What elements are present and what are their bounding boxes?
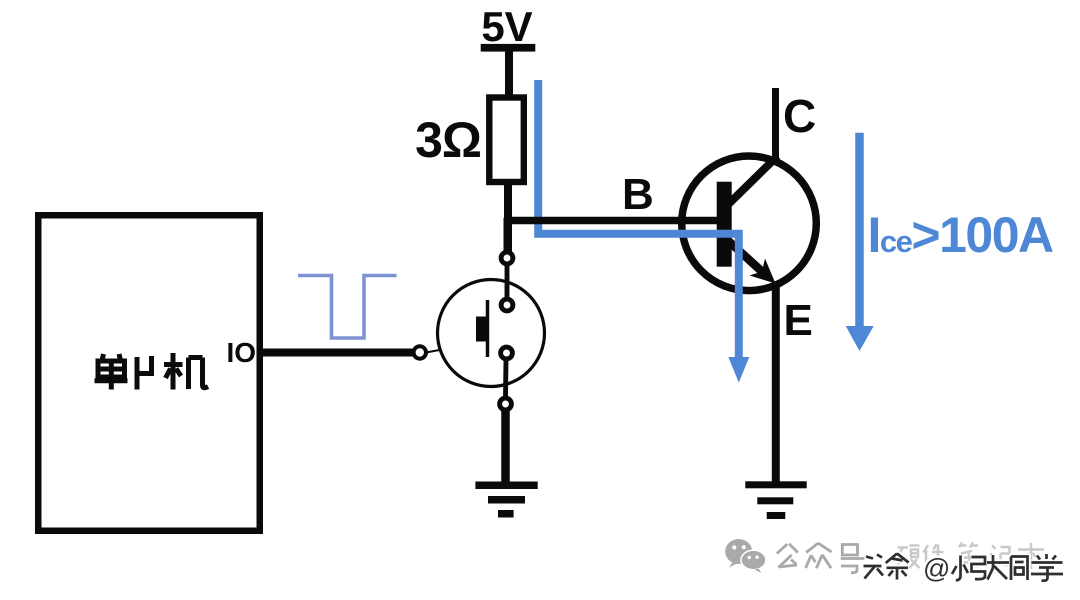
ground GND2 bar1: [745, 481, 806, 488]
power symbol 5V bar: [481, 44, 536, 52]
node button bottom contact: [501, 347, 513, 359]
wire base redraw over blue crossing: [504, 217, 718, 225]
svg-text:3Ω: 3Ω: [415, 112, 481, 168]
wechat icon eyes: [732, 545, 736, 549]
svg-text:E: E: [784, 296, 813, 345]
transistor Q1 body circle: [682, 156, 817, 291]
wire button bottom to ground: [501, 410, 510, 483]
wire thin link terminal to button body: [426, 350, 442, 353]
ground GND1 bar2: [488, 496, 525, 504]
label 单片机: [95, 353, 209, 390]
transistor Q1 emitter diagonal: [729, 242, 763, 273]
blue current path base drive: [538, 80, 739, 359]
watermark 公众号: [777, 543, 865, 573]
transistor Q1 base bar: [717, 182, 732, 267]
MCU box U1: [38, 215, 260, 531]
resistor R1 body: [489, 98, 524, 183]
svg-text:Ice>100A: Ice>100A: [868, 207, 1054, 263]
svg-text:5V: 5V: [481, 3, 532, 50]
watermark 硬件笔记本: [898, 543, 1045, 570]
node button top contact: [501, 299, 513, 311]
watermark 头条 @小张同学: [864, 554, 1064, 581]
node terminal circle at IO wire end: [414, 346, 426, 358]
wire collector up: [772, 88, 779, 160]
transistor Q1 collector diagonal: [727, 156, 778, 206]
wire top terminal to top contact: [505, 264, 510, 299]
ground GND1 bar3: [498, 510, 514, 518]
pushbutton S1 body circle: [438, 280, 545, 387]
node button top outer terminal: [501, 252, 513, 264]
blue Ice arrowhead: [846, 326, 874, 351]
watermark wechat icon small bubble: [741, 550, 766, 570]
watermark wechat icon big bubble: [725, 539, 752, 568]
wire IO to button terminal: [262, 349, 414, 357]
svg-text:C: C: [783, 90, 816, 142]
blue Ice arrow line: [855, 133, 864, 328]
blue arrowhead base path: [728, 357, 749, 383]
pushbutton S1 actuator plunger line: [486, 300, 490, 357]
svg-text:IO: IO: [226, 337, 256, 368]
node button bottom outer terminal: [500, 398, 512, 410]
wire 5V to resistor: [505, 50, 513, 99]
transistor Q1 emitter arrowhead: [750, 259, 776, 284]
ground GND1 bar1: [475, 482, 537, 490]
wire junction to button top terminal: [504, 218, 512, 253]
ground GND2 bar2: [757, 497, 793, 504]
svg-text:@: @: [923, 554, 950, 584]
watermark 头条 @小张同学 white halo: [864, 554, 1064, 581]
wire bottom contact to bottom terminal: [503, 359, 508, 398]
wire resistor to button (through base junction): [504, 182, 512, 253]
svg-text:B: B: [622, 170, 654, 219]
wire emitter down: [772, 284, 780, 482]
pulse waveform annotation: [298, 276, 397, 339]
ground GND2 bar3: [767, 512, 786, 519]
pushbutton S1 actuator cap: [476, 317, 489, 342]
